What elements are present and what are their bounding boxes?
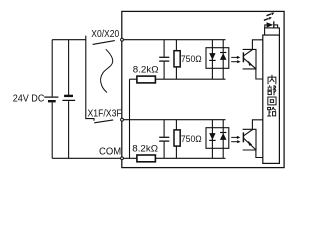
optocoupler U1 LED D1 down [209,53,215,60]
label 8.2kohm upper [133,65,159,76]
LED indicator diode [265,21,278,28]
optocoupler U2 LED D3 down [209,133,215,140]
battery B2 top lead [68,40,70,95]
label 750ohm lower [181,134,202,144]
capacitor C2 bottom lead [163,142,165,159]
switch S2 blade [94,120,113,123]
optocoupler U1 LED D2 up [220,53,227,60]
resistor R4 8.2k body [137,155,156,162]
optocoupler U2 LED box [206,128,229,149]
terminal X1F/X3F [121,118,124,121]
resistor R3 750 top lead [175,120,177,130]
battery B1 positive plate [44,96,58,98]
label 24V DC [13,94,45,105]
label 750ohm upper [181,54,202,64]
capacitor C1 top lead [163,40,165,57]
wire input 1 top [122,39,226,41]
optocoupler U1 phototransistor Q1 [243,50,255,69]
capacitor C2 top lead [163,120,165,137]
resistor R1 750 top lead [175,40,177,51]
optocoupler U1 light arrows [231,56,240,64]
svg-text:8.2kΩ: 8.2kΩ [132,144,158,155]
terminal X0/X20 [121,38,124,41]
svg-text:COM: COM [99,146,121,157]
svg-text:X0/X20: X0/X20 [91,29,119,40]
optocoupler U2 light arrows [231,136,240,144]
optocoupler U2 LED D4 up [220,133,227,140]
label internal circuit kanji 部 [267,85,275,95]
terminal COM [121,157,124,160]
optocoupler U1 LED box [206,48,229,69]
resistor R1 750 body [174,51,180,67]
svg-text:8.2kΩ: 8.2kΩ [133,65,159,76]
label COM [99,146,121,157]
optocoupler U2 phototransistor box [243,129,256,150]
svg-text:750Ω: 750Ω [181,54,202,64]
label internal circuit kanji 内 [268,75,276,84]
break squiggle omitted inputs [101,49,113,92]
battery B1 bottom lead [51,102,53,158]
battery B1 top lead [51,40,53,97]
svg-text:24V DC: 24V DC [13,94,45,105]
optocoupler U2 right LED wire [222,120,224,159]
wire emitter 2 to internal circuit [256,150,263,158]
battery B2 positive plate [62,99,75,101]
label 8.2kohm lower [132,144,158,155]
LED indicator light arrows [264,13,275,21]
optocoupler U2 left LED wire [211,120,213,159]
switch S1 blade [93,41,115,45]
wire collector 2 to internal circuit [252,120,262,130]
wire input 1 lower [130,78,226,80]
label X1F/X3F [88,109,122,120]
wire emitter 1 to internal circuit [256,69,263,79]
wire link node to COM rail [129,79,131,158]
capacitor C1 plates [159,57,169,61]
PLC enclosure box [122,11,284,167]
svg-text:X1F/X3F: X1F/X3F [88,109,122,120]
battery B1 negative plate [48,100,56,102]
LED indicator box [265,28,280,35]
label internal circuit kanji 回 [268,97,276,105]
capacitor C1 bottom lead [163,62,165,80]
capacitor C2 plates [159,137,169,141]
optocoupler U1 phototransistor box [243,49,256,69]
optocoupler U1 left LED wire [211,40,213,79]
label X0/X20 [91,29,119,40]
svg-text:750Ω: 750Ω [181,134,202,144]
resistor R1 750 bottom lead [175,67,177,79]
resistor R3 750 body [174,130,180,146]
wire bottom rail to COM [52,157,122,159]
battery B2 negative plate [64,95,73,97]
wire input 2 top [122,119,226,121]
optocoupler U2 phototransistor Q2 [243,130,255,150]
battery B2 bottom lead [68,101,70,158]
resistor R3 750 bottom lead [175,146,177,158]
resistor R2 8.2k body [137,76,156,83]
optocoupler U1 right LED wire [222,40,224,79]
wire top rail [52,39,86,41]
label internal circuit kanji 路 [267,107,276,116]
wire collector 1 to internal circuit [252,40,262,50]
wire switch bus vertical [86,36,94,121]
wire COM lower [122,157,226,159]
internal circuit box [263,35,280,163]
